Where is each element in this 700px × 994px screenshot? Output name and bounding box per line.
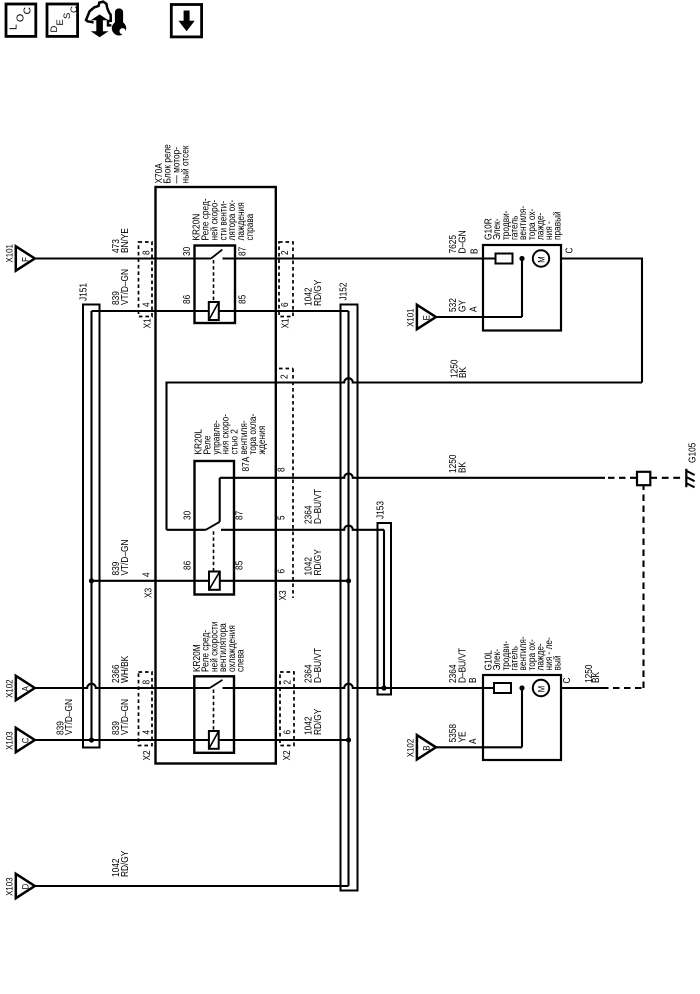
svg-text:D–GN: D–GN: [457, 230, 468, 253]
wire 2364 D-BU/VT KR20M pin87 to G10L pin B: [223, 684, 495, 688]
svg-text:A: A: [20, 686, 31, 692]
node J152 row5 junction: [346, 578, 351, 583]
wire 5358 YE X102-B to G10L pin A: [436, 746, 483, 748]
svg-text:A: A: [469, 306, 480, 312]
svg-text:C: C: [69, 6, 80, 13]
svg-text:X102: X102: [4, 680, 15, 698]
connector X101-E arrow: [417, 305, 436, 329]
svg-text:2: 2: [280, 250, 291, 255]
svg-text:X101: X101: [406, 309, 417, 327]
connector X102-A arrow: [16, 676, 35, 700]
svg-text:87: 87: [235, 510, 246, 520]
svg-text:B: B: [422, 745, 433, 750]
node J152 row7 junction: [346, 737, 351, 742]
wire 839 VT/D-GN X103-C to KR20M pin86: [35, 739, 210, 741]
svg-text:6: 6: [277, 569, 288, 574]
svg-text:правый: правый: [553, 211, 564, 240]
svg-text:X101: X101: [4, 244, 15, 262]
svg-text:8: 8: [277, 467, 288, 472]
svg-text:86: 86: [182, 294, 193, 304]
relay KR20L coil dashed link: [213, 531, 215, 571]
splice pack J152: [341, 305, 358, 891]
svg-text:D: D: [49, 25, 60, 32]
svg-text:X1: X1: [143, 318, 154, 329]
svg-text:вый: вый: [553, 656, 564, 671]
wire 1042 RD/GY X103-D to J152: [35, 885, 349, 887]
wire 2366 WH/BK X102-A to KR20M pin30: [35, 684, 210, 688]
icon LOC box: [6, 4, 36, 36]
wire dashed junction square to G105: [650, 477, 681, 479]
wire 1250 BK G10L dashed to corner: [602, 687, 644, 689]
wire 1250 BK G10L pin C solid: [561, 687, 602, 689]
svg-text:C: C: [22, 6, 34, 14]
svg-text:X2: X2: [282, 750, 293, 761]
svg-text:D: D: [20, 884, 31, 890]
relay KR20M coil: [209, 731, 219, 749]
connector X102-B arrow: [417, 735, 436, 759]
wire KR20N pin87 to G10R pin B (7625 D-GN): [223, 257, 497, 259]
svg-text:VT/D–GN: VT/D–GN: [120, 540, 131, 576]
wire KR20L pin30 entry: [167, 529, 206, 531]
node J151 row7 junction: [89, 737, 94, 742]
icon down-arrow box: [171, 5, 201, 37]
svg-text:слева: слева: [236, 649, 247, 672]
relay KR20L pin87A link: [219, 478, 221, 522]
svg-text:X1: X1: [281, 318, 292, 329]
wire 532 GY X101-E to G10R pin A: [436, 316, 483, 318]
svg-text:D–BU/VT: D–BU/VT: [457, 648, 468, 683]
svg-text:F: F: [20, 257, 31, 262]
motor symbol G10R: [533, 250, 549, 266]
svg-text:L: L: [8, 24, 20, 30]
svg-text:справа: справа: [245, 213, 256, 240]
svg-text:6: 6: [283, 730, 294, 735]
splice pack J151: [83, 305, 100, 748]
ground G105 symbol: [685, 469, 687, 487]
connector X101-F arrow: [16, 246, 35, 270]
svg-text:2: 2: [280, 374, 291, 379]
svg-text:ный отсек: ный отсек: [181, 145, 192, 184]
relay KR20M switch: [210, 680, 223, 688]
svg-text:87A: 87A: [241, 456, 252, 471]
icon up-down arrow: [92, 15, 106, 37]
svg-text:87: 87: [238, 246, 249, 256]
svg-text:86: 86: [183, 560, 194, 570]
icon vehicle outline: [86, 2, 111, 26]
svg-text:C: C: [562, 678, 573, 684]
svg-text:X103: X103: [4, 878, 15, 896]
wire 1250 BK KR20L pin87A to ground lead: [220, 474, 605, 478]
svg-text:RD/GY: RD/GY: [313, 279, 324, 306]
svg-text:X102: X102: [406, 739, 417, 757]
wire G10L internal pin A: [483, 746, 522, 748]
relay KR20N box: [195, 246, 236, 324]
svg-text:ждения: ждения: [257, 426, 268, 455]
svg-text:30: 30: [183, 510, 194, 520]
svg-text:BN/YE: BN/YE: [120, 228, 131, 253]
relay KR20N coil: [209, 302, 219, 320]
resistor in G10R: [496, 254, 513, 264]
svg-text:J151: J151: [79, 283, 90, 301]
relay KR20M box: [194, 676, 234, 753]
svg-text:D–BU/VT: D–BU/VT: [313, 489, 324, 524]
svg-text:30: 30: [182, 246, 193, 256]
svg-text:8: 8: [142, 250, 153, 255]
svg-text:VT/D–GN: VT/D–GN: [120, 699, 131, 735]
svg-text:6: 6: [280, 302, 291, 307]
svg-text:RD/GY: RD/GY: [313, 708, 324, 735]
wire 473 BN/YE X101-F to KR20N pin30: [35, 257, 211, 259]
resistor in G10L: [494, 683, 511, 693]
svg-text:RD/GY: RD/GY: [313, 549, 324, 576]
node G10R junction: [519, 256, 524, 261]
splice pack J153: [378, 523, 392, 695]
svg-text:E: E: [422, 315, 433, 320]
svg-text:A: A: [468, 738, 479, 744]
svg-text:8: 8: [142, 680, 153, 685]
svg-text:85: 85: [235, 560, 246, 570]
motor G10L box: [483, 675, 561, 760]
wire 1042 RD/GY KR20L pin85 to J152: [220, 580, 349, 582]
relay KR20N switch: [211, 250, 222, 259]
svg-text:X2: X2: [142, 750, 153, 761]
svg-text:4: 4: [142, 572, 153, 577]
svg-text:D–BU/VT: D–BU/VT: [313, 648, 324, 683]
svg-text:85: 85: [238, 294, 249, 304]
relay KR20L coil: [209, 572, 220, 590]
connector X103-C arrow: [16, 728, 35, 752]
svg-text:GY: GY: [457, 300, 468, 312]
svg-text:M: M: [537, 686, 547, 692]
connector X3 right dashed edge: [292, 460, 294, 598]
relay KR20L box: [195, 461, 235, 595]
svg-text:B: B: [468, 677, 479, 683]
wire 2364 D-BU/VT KR20L pin87 to J153: [221, 526, 384, 530]
svg-text:4: 4: [142, 302, 153, 307]
svg-text:J152: J152: [339, 282, 350, 300]
svg-text:BK: BK: [457, 462, 468, 473]
icon DESC box: [47, 4, 78, 36]
wire 1250 BK G10R pin C down to row3: [561, 257, 642, 259]
svg-text:M: M: [537, 256, 547, 262]
wire G10R internal pin A: [483, 316, 522, 318]
wire 1250 BK row3 to KR20L pin30 corner: [167, 378, 643, 382]
svg-text:X103: X103: [4, 732, 15, 750]
connector X1 left dashed box: [139, 242, 153, 317]
relay KR20M coil dashed link: [213, 690, 215, 731]
svg-text:VT/D–GN: VT/D–GN: [120, 269, 131, 305]
svg-text:2: 2: [283, 680, 294, 685]
junction square ground splice: [637, 472, 650, 485]
wire 839 VT/D-GN J151 to KR20L pin86: [92, 580, 210, 582]
motor G10R box: [483, 245, 561, 331]
node G10L junction: [519, 685, 524, 690]
svg-text:VT/D–GN: VT/D–GN: [64, 699, 75, 735]
wire 1250 BK dashed row4b to junction square: [608, 477, 637, 479]
svg-text:C: C: [565, 248, 576, 254]
wire 1042 RD/GY KR20N pin85 to J152: [219, 310, 349, 312]
svg-text:X3: X3: [144, 587, 155, 598]
connector X1 right dashed box: [279, 242, 293, 317]
svg-text:BK: BK: [458, 367, 469, 378]
relay block X70A box: [156, 187, 276, 764]
wire 1042 RD/GY KR20M pin85 to J152: [219, 739, 349, 741]
relay KR20L switch: [206, 522, 220, 530]
wire 839 VT/D-GN J151 to KR20N pin86: [92, 310, 210, 312]
svg-text:G105: G105: [688, 442, 699, 463]
svg-text:E: E: [55, 19, 66, 25]
connector pin 2 dashed stub row3: [279, 368, 293, 370]
svg-text:C: C: [20, 738, 31, 744]
svg-text:BK: BK: [591, 672, 602, 683]
connector X103-D arrow: [16, 874, 35, 898]
svg-text:WH/BK: WH/BK: [120, 656, 131, 683]
svg-text:5: 5: [277, 515, 288, 520]
svg-text:YE: YE: [457, 731, 468, 742]
node J153 row6 junction: [381, 685, 386, 690]
svg-text:RD/GY: RD/GY: [120, 850, 131, 877]
svg-text:J153: J153: [376, 501, 387, 519]
wire 1250 BK dashed corner up to ground junction: [642, 486, 644, 689]
connector X2 left dashed box: [139, 672, 153, 746]
node J151 row5 junction: [89, 578, 94, 583]
motor symbol G10L: [533, 680, 549, 696]
svg-text:B: B: [470, 248, 481, 254]
icon wrench: [115, 9, 122, 24]
svg-text:4: 4: [142, 730, 153, 735]
svg-text:X3: X3: [278, 590, 289, 601]
connector X2 right dashed box: [280, 672, 294, 746]
relay KR20N coil dashed link: [213, 260, 215, 302]
